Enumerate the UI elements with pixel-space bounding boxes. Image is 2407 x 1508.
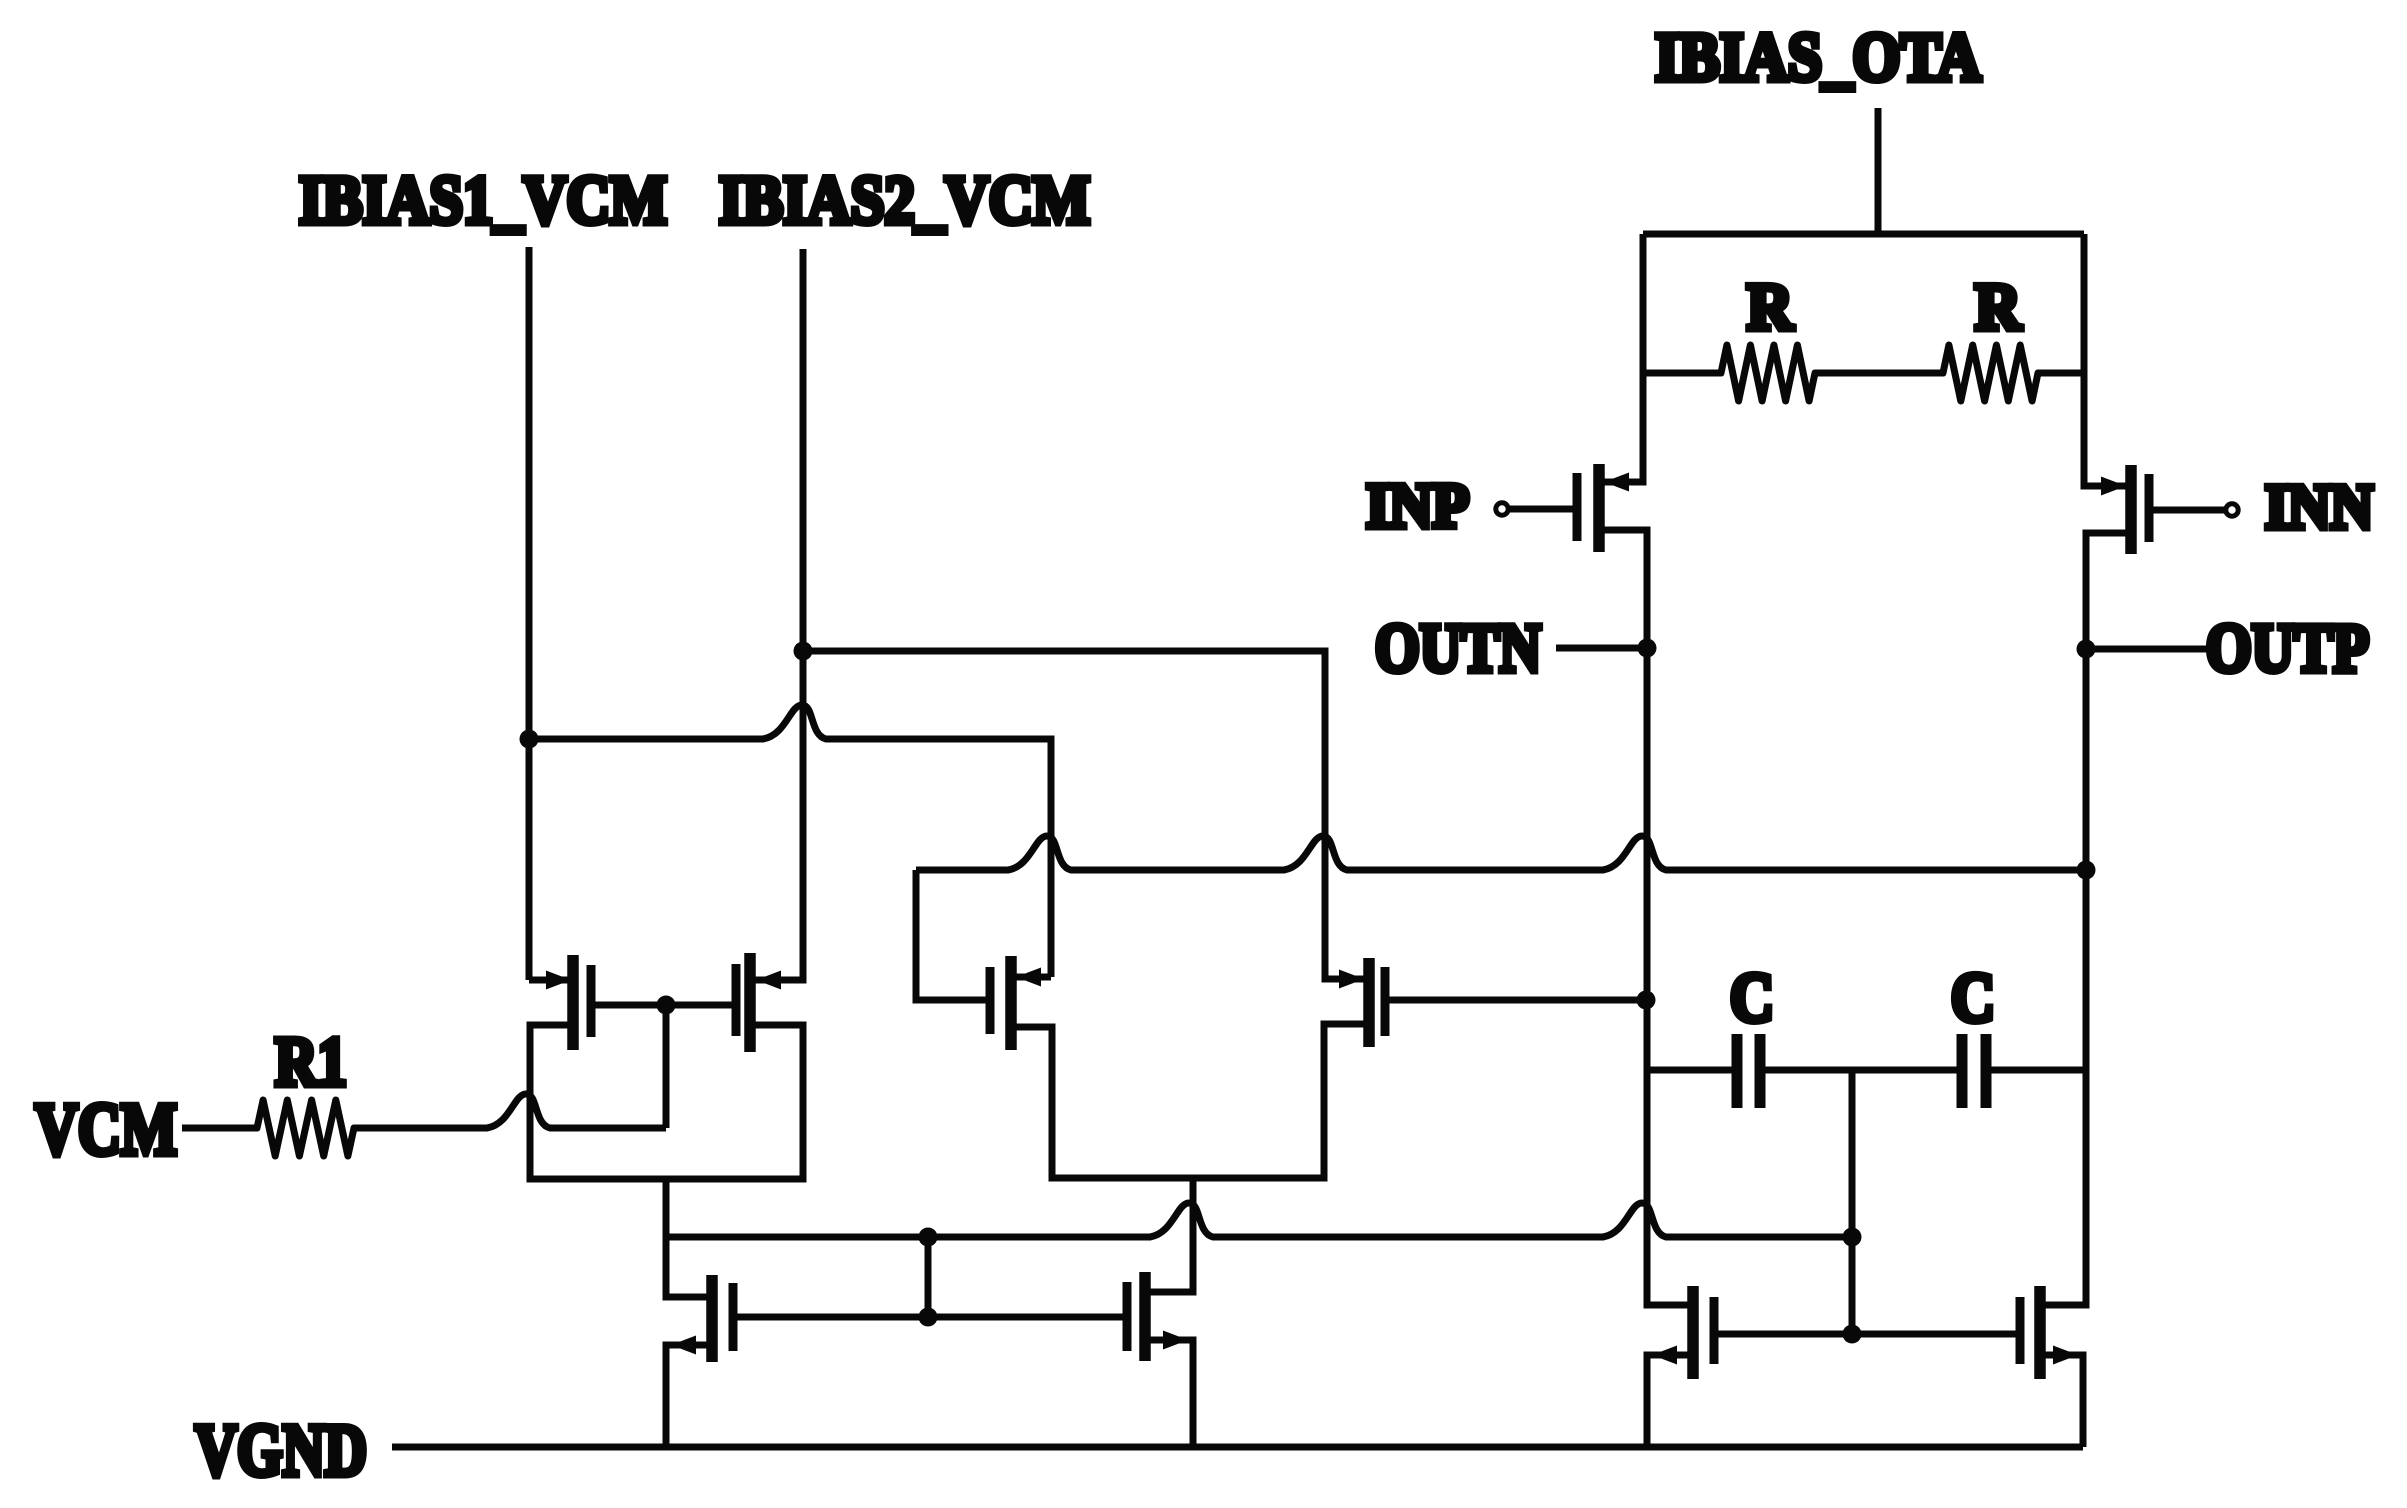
transistor M9 gate bar: [1123, 1282, 1132, 1351]
svg-text:C: C: [1730, 960, 1774, 1037]
transistor M1 arrow: [546, 971, 571, 990]
wire M5/M6 source link rail: [1011, 1024, 1369, 1178]
svg-text:IBIAS_OTA: IBIAS_OTA: [1655, 19, 1981, 95]
transistor M5 arrow: [1016, 968, 1041, 987]
transistor INP arrow: [1604, 473, 1629, 492]
transistor M8 gate bar: [729, 1283, 738, 1351]
svg-text:IBIAS2_VCM: IBIAS2_VCM: [719, 162, 1090, 238]
transistor M9 arrow: [1163, 1331, 1188, 1350]
transistor M9 channel bar: [1139, 1272, 1151, 1361]
resistor R1 and VCM wire (hop over source box edge): [182, 1094, 666, 1156]
wire capacitor row middle segment: [1760, 1067, 1962, 1074]
wire OTA left edge and INP drain lead: [1599, 234, 1643, 482]
wire M1-M2 gate link: [591, 1002, 736, 1009]
transistor M6 channel bar: [1363, 958, 1375, 1047]
capacitor C right plates: [1957, 1034, 1968, 1108]
wire CMFB sense line (hops over two rails): [666, 1203, 1852, 1237]
svg-text:R: R: [1975, 270, 2022, 344]
wire capacitor row left segment: [1647, 1067, 1737, 1074]
transistor INN channel bar: [2125, 465, 2137, 554]
transistor M11 source lead to VGND: [2040, 1355, 2083, 1447]
wire OTA right edge and INN drain lead: [2084, 234, 2131, 486]
wire capacitor row right segment: [1986, 1067, 2086, 1074]
transistor M8 source lead to VGND: [666, 1345, 712, 1447]
wire M1/M2 source box: [530, 1025, 803, 1179]
wire INN gate lead: [2149, 507, 2224, 514]
svg-text:R: R: [1747, 270, 1794, 344]
transistor M2 channel bar: [744, 953, 756, 1052]
transistor M1 gate bar: [587, 965, 596, 1037]
node CMFB dot right: [1843, 1228, 1862, 1247]
wire INP source, OUTN rail and M10 drain lead: [1599, 530, 1693, 1305]
node junction dot IBIAS1 branch: [520, 730, 539, 749]
transistor INN gate bar: [2145, 474, 2154, 542]
transistor INP channel bar: [1593, 464, 1605, 552]
node junction dot IBIAS2 branch: [794, 642, 813, 661]
node OUTN junction dot: [1638, 639, 1657, 658]
capacitor C left plates: [1732, 1034, 1743, 1108]
transistor M11 arrow: [2053, 1346, 2078, 1365]
wire IBIAS1_VCM vertical rail: [526, 247, 533, 980]
node OUTP feedback dot: [2077, 861, 2096, 880]
svg-text:OUTN: OUTN: [1375, 610, 1541, 686]
wire M6 gate to OUTN rail: [1385, 997, 1646, 1004]
svg-text:INP: INP: [1366, 470, 1469, 541]
wire INN source, OUTP rail and M11 drain lead: [2040, 533, 2131, 1305]
svg-text:C: C: [1951, 960, 1995, 1037]
node M8/M9 gate junction dot: [919, 1308, 938, 1327]
transistor M1 drain lead: [529, 977, 573, 984]
node INN terminal circle: [2226, 504, 2238, 516]
wire source box drop to M8 drain: [666, 1179, 712, 1297]
transistor M6 gate bar: [1381, 967, 1390, 1036]
transistor INN arrow: [2101, 477, 2126, 496]
wire OUTN lead: [1556, 645, 1647, 652]
transistor M10 arrow: [1652, 1346, 1677, 1365]
wire IBIAS1 branch to M5 drain (hop over IBIAS2 rail): [529, 705, 1051, 977]
svg-text:VCM: VCM: [35, 1089, 177, 1171]
wire M5 gate riser: [916, 870, 990, 1000]
transistor M5 channel bar: [1005, 956, 1017, 1050]
svg-text:INN: INN: [2265, 471, 2373, 542]
wire M10-M11 gate link: [1716, 1331, 2020, 1338]
wire capacitor tap down to M10/M11 gates: [1849, 1070, 1856, 1334]
wire M8-M9 gate link: [737, 1314, 1127, 1321]
transistor M9 drain lead from mid rail: [1145, 1178, 1193, 1292]
wire IBIAS2 branch to M6 drain: [803, 651, 1369, 979]
wire IBIAS_OTA stub: [1875, 108, 1882, 234]
wire OUTP feedback line (three hops): [916, 836, 2086, 870]
transistor M2 gate bar: [732, 964, 741, 1036]
wire IBIAS2_VCM vertical rail and M2 drain lead: [750, 249, 803, 980]
node INP terminal circle: [1496, 503, 1508, 515]
svg-text:R1: R1: [275, 1024, 347, 1101]
transistor M1 channel bar: [567, 955, 579, 1050]
wire INP gate lead: [1510, 506, 1577, 513]
svg-text:VGND: VGND: [195, 1410, 367, 1492]
transistor M11 channel bar: [2034, 1286, 2046, 1379]
node M1/M2 gate junction dot: [657, 996, 676, 1015]
svg-text:IBIAS1_VCM: IBIAS1_VCM: [299, 162, 667, 238]
resistor R pair line: [1643, 345, 2084, 401]
transistor M5 gate bar: [986, 967, 995, 1034]
node M6 gate junction dot: [1637, 991, 1656, 1010]
wire gate node down to VCM feed: [663, 1005, 670, 1128]
transistor M10 channel bar: [1687, 1286, 1699, 1379]
wire CMFB dot link down: [925, 1237, 932, 1317]
transistor M9 source lead to VGND: [1145, 1340, 1193, 1447]
wire OTA top box: [1643, 231, 2084, 238]
transistor M6 arrow: [1339, 970, 1364, 989]
node OUTP junction dot: [2077, 640, 2096, 659]
transistor M10 gate bar: [1710, 1297, 1719, 1364]
transistor M8 channel bar: [706, 1275, 718, 1362]
node CMFB dot left: [919, 1228, 938, 1247]
wire OUTP lead: [2086, 646, 2206, 653]
transistor INP gate bar: [1573, 473, 1582, 541]
svg-text:OUTP: OUTP: [2206, 610, 2369, 686]
transistor M5 drain lead: [1011, 974, 1051, 981]
transistor M11 gate bar: [2016, 1297, 2025, 1364]
wire VGND rail: [392, 1444, 2083, 1451]
transistor M2 arrow: [756, 971, 781, 990]
transistor M10 source lead to VGND: [1647, 1355, 1693, 1447]
transistor M8 arrow: [671, 1336, 696, 1355]
node M10/M11 gate junction dot: [1843, 1325, 1862, 1344]
